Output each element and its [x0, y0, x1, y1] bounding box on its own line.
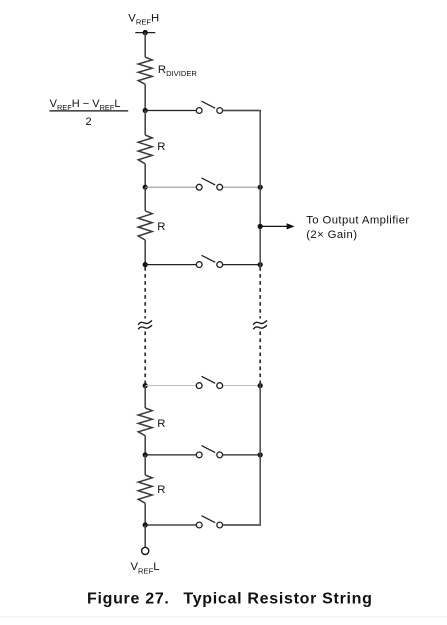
wire R4 to node F: [144, 503, 146, 525]
wire node A to R1: [144, 111, 146, 136]
svg-text:VREFH − VREFL: VREFH − VREFL: [50, 98, 121, 112]
svg-text:VREFL: VREFL: [131, 561, 160, 575]
junction bus at S5: [258, 452, 263, 457]
resistor R4: [138, 475, 152, 503]
svg-text:(2× Gain): (2× Gain): [306, 229, 357, 241]
junction node B: [143, 185, 148, 190]
switch S3: [145, 255, 260, 267]
junction output tap: [258, 224, 263, 229]
wire dashed left upper: [144, 267, 146, 318]
junction bus at S4: [258, 383, 263, 388]
wire output arrow: [260, 223, 294, 229]
wire node D to R3: [144, 386, 146, 408]
label (VREFH-VREFL)/2: [49, 98, 128, 128]
switch S6: [145, 516, 260, 528]
wire right bus upper solid: [223, 111, 261, 268]
svg-text:To Output Amplifier: To Output Amplifier: [306, 215, 409, 227]
svg-text:VREFH: VREFH: [128, 12, 159, 26]
junction node C: [143, 262, 148, 267]
wire node F to VREFL terminal: [144, 525, 146, 547]
break symbol right bus: [253, 321, 267, 330]
svg-text:R: R: [157, 141, 165, 153]
svg-text:R: R: [157, 221, 165, 233]
svg-text:RDIVIDER: RDIVIDER: [158, 64, 197, 78]
wire R1 to node B: [144, 164, 146, 187]
switch S5: [145, 446, 260, 458]
terminal VREFH: [135, 30, 155, 35]
resistor R2: [138, 211, 152, 240]
switch S4: [145, 376, 260, 388]
junction bus at S3: [258, 262, 263, 267]
svg-text:R: R: [157, 418, 165, 430]
wire RDIVIDER to node A: [144, 84, 146, 110]
wire R2 to node C: [144, 240, 146, 265]
svg-text:2: 2: [86, 116, 92, 128]
switch S1: [145, 101, 260, 113]
wire right bus dashed lower: [259, 332, 261, 384]
resistor R1: [138, 135, 152, 164]
wire right bus dashed upper: [259, 267, 261, 318]
svg-text:R: R: [157, 484, 165, 496]
resistor RDIVIDER: [138, 57, 152, 84]
terminal VREFL: [142, 547, 149, 554]
junction node E: [143, 452, 148, 457]
wire R3 to node E: [144, 436, 146, 455]
junction node D: [143, 383, 148, 388]
resistor R3: [138, 408, 152, 436]
wire node B to R2: [144, 187, 146, 211]
wire node E to R4: [144, 455, 146, 475]
break symbol left column: [138, 321, 152, 330]
junction node A: [143, 108, 148, 113]
wire right bus lower solid: [223, 384, 261, 525]
switch S2: [145, 178, 260, 190]
junction bus at S2: [258, 185, 263, 190]
svg-text:Figure 27. Typical Resistor S: Figure 27. Typical Resistor String: [87, 591, 373, 608]
wire dashed left lower: [144, 332, 146, 384]
wire VREFH to RDIVIDER: [144, 33, 146, 58]
junction node F: [143, 522, 148, 527]
